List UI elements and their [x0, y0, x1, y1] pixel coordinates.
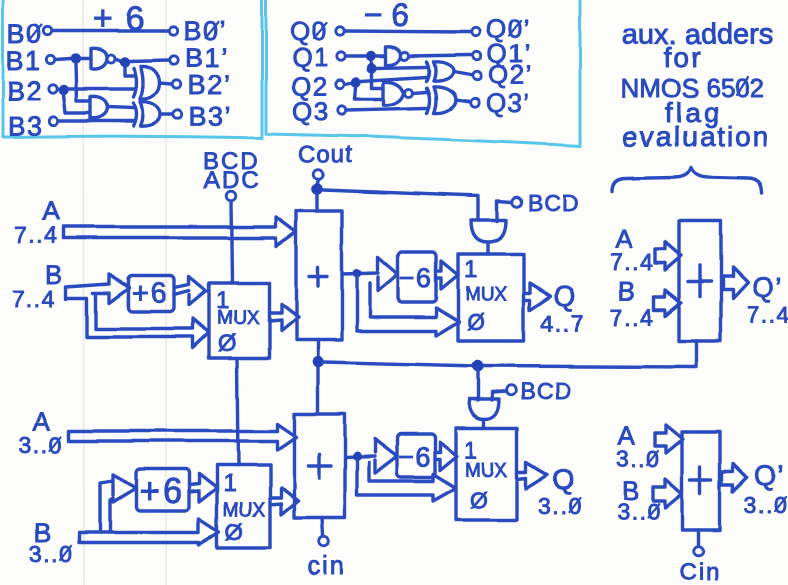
box +6 low	[136, 469, 189, 511]
junction B1	[71, 54, 81, 64]
zero slash Q low 3..0	[569, 498, 580, 512]
terminal B0 out	[169, 27, 177, 35]
wire adder2 out to -6 arrow	[345, 439, 397, 473]
wire Q2 to xor3 lower input	[361, 77, 427, 81]
arrow +6 to mux1	[174, 277, 206, 305]
junction carry to bcd gate low	[472, 360, 484, 372]
svg-text:−: −	[364, 0, 384, 33]
wire xor4 to Q3 out	[456, 100, 470, 102]
xor gate X3 body	[434, 62, 454, 81]
junction Q1 lower	[367, 63, 377, 73]
arrow A into F1	[655, 242, 681, 270]
xor gate X1 input curve	[134, 68, 137, 97]
bus B high to +6 arrow	[66, 274, 209, 348]
arrow mux1 to adder1	[269, 304, 298, 331]
svg-text:−6: −6	[398, 442, 432, 472]
arrow mux2 to Q high	[524, 283, 551, 310]
xor gate X2 input curve	[134, 103, 137, 126]
wire B1 to junction	[56, 59, 71, 60]
inverter U1 bubble	[107, 55, 115, 63]
inverter U1 body	[91, 49, 107, 69]
svg-text:Q3’: Q3’	[486, 88, 531, 118]
wire adder1 bottom down	[316, 340, 319, 414]
wire select mux1 to mux3	[237, 358, 238, 465]
wire Cout junction to adder top	[315, 194, 318, 211]
arrow +6 low to mux3	[189, 474, 217, 502]
wire Q3 to xor4 lower input	[347, 108, 427, 110]
svg-text:1: 1	[464, 256, 479, 283]
wire junction to inverter	[81, 57, 91, 60]
svg-text:+6: +6	[139, 472, 185, 511]
svg-text:7..4: 7..4	[747, 302, 788, 328]
junction Q2	[351, 77, 361, 87]
bypass bus adder1 to mux2	[357, 277, 459, 336]
svg-text:3..0: 3..0	[538, 493, 582, 519]
bus B low riser to +6	[100, 475, 136, 533]
terminal Cin F2	[693, 546, 703, 556]
xor gate X2 body	[141, 102, 161, 126]
wire carry chain horizontal	[323, 341, 697, 367]
nand gate A2 bubble	[405, 89, 413, 97]
svg-text:B1: B1	[6, 46, 42, 76]
mux M2 box	[458, 254, 524, 341]
wire bcd gate low to mux4 select	[482, 419, 485, 428]
wire junction Q2 down to nand	[355, 87, 384, 99]
bus A low	[69, 424, 296, 450]
wire nand to xor4 upper input	[413, 92, 427, 93]
adder ALU2 plus sign	[308, 454, 331, 478]
flag adder F2 plus sign	[690, 467, 711, 493]
svg-text:Q: Q	[553, 464, 576, 495]
wire F2 cin	[696, 530, 699, 545]
terminal B3 in	[50, 117, 58, 125]
svg-text:Cout: Cout	[298, 141, 353, 168]
terminal B1 out	[170, 56, 178, 64]
svg-text:BCD: BCD	[528, 190, 580, 216]
wire xor1 to B2 out	[160, 83, 172, 84]
zero slash Q0'	[509, 21, 521, 36]
svg-text:4..7: 4..7	[541, 310, 585, 336]
xor gate X3 input curve	[427, 62, 430, 81]
bcd and gate high	[471, 220, 506, 242]
arrow B into F1	[654, 290, 681, 316]
wire junction2 down to xor1 upper input	[125, 67, 134, 76]
terminal Q3 in	[338, 106, 346, 114]
wire BCD terminal to gate	[497, 201, 512, 221]
svg-text:7..4: 7..4	[14, 222, 58, 248]
xor gate X4 body	[434, 87, 456, 113]
adder ALU2 box	[294, 414, 345, 518]
wire BCD low terminal to gate	[492, 391, 506, 400]
svg-text:−6: −6	[399, 263, 433, 293]
junction B2	[59, 85, 69, 95]
zero slash Q' F2 3..0	[775, 497, 786, 511]
wire to xor3 upper input	[377, 67, 427, 68]
terminal Q0 in	[336, 27, 344, 35]
svg-text:3..0: 3..0	[617, 499, 661, 525]
wire BCD ADC select down to mux1	[231, 201, 232, 283]
flag adder F1 plus sign	[688, 266, 711, 297]
wire xor3 to Q2 out	[454, 72, 471, 75]
flag adder F1 box	[679, 221, 721, 341]
terminal Q1 in	[337, 52, 345, 60]
svg-text:Ø: Ø	[467, 309, 486, 335]
arrow -6 low to mux4	[435, 442, 457, 470]
junction adder1 out	[353, 269, 362, 278]
svg-text:B1’: B1’	[185, 43, 229, 73]
svg-text:1: 1	[223, 470, 238, 497]
terminal B3 out	[174, 110, 182, 118]
svg-text:B0’: B0’	[183, 16, 227, 46]
zero slash B0	[29, 25, 42, 41]
terminal BCD high	[512, 197, 522, 207]
wire xor2 to B3 out	[161, 112, 173, 115]
zero slash A F2 3..0	[647, 451, 658, 465]
adder ALU1 plus sign	[309, 267, 327, 286]
wire adder1 out to -6 arrow	[342, 257, 398, 291]
svg-text:Q’: Q’	[754, 460, 785, 491]
cyan frame of -6 box	[266, 0, 580, 146]
mux M3 box	[217, 465, 270, 548]
bcd and gate low	[469, 399, 499, 419]
junction under adder1	[312, 356, 324, 368]
wire to B1 out	[130, 60, 169, 61]
svg-text:B3: B3	[8, 111, 44, 141]
terminal cin	[319, 536, 329, 546]
svg-text:+6: +6	[131, 278, 168, 310]
wire junction to inverter	[376, 54, 386, 57]
wire B3 to xor2 lower input	[59, 119, 135, 122]
svg-text:B2: B2	[7, 76, 43, 106]
cyan frame of +6 box	[3, 0, 262, 138]
box -6 high	[398, 252, 436, 302]
junction B1 inverted	[120, 57, 130, 67]
adder ALU1 box	[296, 211, 342, 340]
svg-text:cin: cin	[307, 550, 346, 580]
svg-text:MUX: MUX	[217, 308, 260, 329]
arrow A into F2	[655, 425, 683, 453]
svg-text:Q2’: Q2’	[488, 60, 533, 90]
terminal BCD low	[506, 385, 516, 395]
bypass bus adder2 to mux4	[357, 460, 456, 501]
curly brace	[612, 167, 762, 193]
svg-text:Cin: Cin	[679, 559, 721, 585]
bus A high	[63, 217, 296, 246]
zero slash 6502	[736, 77, 748, 95]
arrow F1 out	[723, 268, 748, 299]
wire B2 to xor1 lower input	[69, 87, 134, 90]
zero slash B0'	[205, 22, 218, 38]
svg-text:B2’: B2’	[188, 70, 232, 100]
svg-text:BCD: BCD	[520, 378, 572, 404]
svg-text:B3’: B3’	[189, 101, 233, 131]
svg-text:Ø: Ø	[218, 330, 237, 356]
bus B low	[79, 519, 219, 545]
wire B2 to junction	[58, 89, 60, 90]
svg-text:7..4: 7..4	[610, 249, 654, 275]
svg-text:for: for	[664, 42, 703, 73]
inverter U2 bubble	[401, 52, 409, 60]
junction adder2 out	[353, 452, 362, 461]
wire junction B1 down to and gate	[76, 64, 91, 101]
svg-text:MUX: MUX	[223, 500, 266, 521]
svg-text:Ø: Ø	[225, 519, 244, 545]
arrow mux3 to adder2	[270, 488, 298, 515]
box +6 high	[128, 276, 174, 312]
svg-text:MUX: MUX	[465, 284, 508, 305]
faint page crease line mid	[165, 0, 167, 585]
svg-text:Ø: Ø	[470, 487, 489, 513]
svg-text:B0: B0	[7, 19, 43, 49]
zero slash Q0	[314, 23, 327, 38]
svg-text:MUX: MUX	[465, 460, 508, 481]
nand gate A2 body	[384, 82, 404, 105]
zero slash B F2 3..0	[648, 504, 659, 518]
wire carry junction down to bcd gate low	[476, 371, 479, 400]
terminal B0 in	[44, 27, 52, 35]
zero slash B 3..0	[60, 546, 71, 560]
terminal Q0 out	[472, 28, 480, 36]
terminal Q1 out	[473, 52, 481, 60]
wire Q1 to junction	[346, 54, 365, 57]
svg-text:3..0: 3..0	[29, 541, 73, 567]
wire and1 out to xor2	[108, 107, 134, 108]
inverter U2 body	[386, 47, 401, 65]
junction Q1	[366, 51, 376, 61]
svg-text:evaluation: evaluation	[622, 121, 770, 152]
svg-text:3..0: 3..0	[744, 492, 788, 518]
wire Cout junction to BCD and gate	[323, 190, 478, 220]
arrow F2 out	[722, 464, 747, 492]
svg-text:3..0: 3..0	[19, 432, 63, 458]
terminal B1 in	[47, 56, 55, 64]
junction Cout	[311, 183, 323, 195]
terminal Q2 in	[336, 80, 344, 88]
zero slash A 3..0	[50, 437, 61, 451]
box -6 low	[397, 434, 435, 477]
arrow B into F2	[653, 479, 682, 508]
wire Q0	[345, 31, 470, 32]
wire Q1 lower junction down to nand	[372, 73, 384, 88]
arrow -6 to mux2	[436, 261, 458, 289]
terminal B2 in	[49, 85, 57, 93]
faint page crease line left	[83, 0, 84, 585]
terminal Cout	[313, 169, 323, 179]
wire Cout to junction	[317, 179, 318, 184]
terminal Q2 out	[473, 72, 481, 80]
mux M1 box	[209, 283, 269, 358]
xor gate X1 body	[141, 66, 160, 99]
svg-text:7..4: 7..4	[12, 286, 56, 312]
svg-text:Q1: Q1	[292, 42, 330, 72]
svg-text:Q: Q	[554, 280, 577, 311]
arrow mux4 to Q low	[517, 462, 548, 489]
svg-text:3..0: 3..0	[616, 446, 660, 472]
terminal B2 out	[173, 80, 181, 88]
svg-text:B: B	[618, 276, 637, 306]
and gate A1	[91, 97, 108, 118]
wire inverter to junction 2	[115, 59, 120, 61]
svg-text:Q3: Q3	[292, 96, 330, 126]
wire Q2 to junction	[345, 83, 350, 84]
svg-text:6: 6	[391, 0, 410, 33]
wire junction B2 down to and gate	[64, 95, 91, 113]
svg-text:Q’: Q’	[752, 272, 783, 303]
terminal BCD ADC	[226, 191, 236, 201]
mux M4 box	[456, 428, 517, 520]
svg-text:7..4: 7..4	[610, 304, 654, 330]
terminal Q3 out	[471, 99, 479, 107]
wire bcd gate high to mux2 select	[486, 242, 489, 254]
wire Q1 junction down	[371, 60, 372, 64]
xor gate X4 input curve	[427, 88, 430, 113]
flag adder F2 box	[682, 432, 720, 530]
wire B0	[53, 29, 168, 32]
wire adder2 bottom to cin	[322, 518, 323, 535]
wire inverter to Q1 out	[409, 55, 471, 56]
